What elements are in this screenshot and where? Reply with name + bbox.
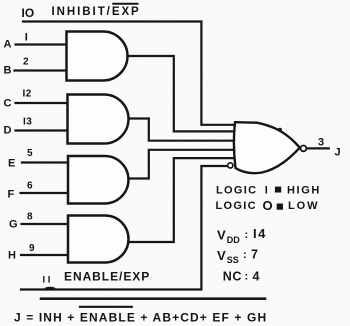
wire AND4 output to NOR input	[129, 158, 234, 242]
nor-gate U5 body	[234, 122, 300, 173]
wire input G	[22, 223, 69, 225]
and-gate U4 (inputs G,H)	[68, 216, 129, 263]
svg-text:ENABLE/EXP: ENABLE/EXP	[64, 270, 150, 284]
svg-text:J = INH + ENABLE + AB+CD+ EF +: J = INH + ENABLE + AB+CD+ EF + GH	[14, 311, 267, 325]
and-gate U1 (inputs A,B)	[67, 32, 128, 81]
svg-text:LOGIC: LOGIC	[216, 185, 257, 197]
svg-text:LOGIC: LOGIC	[216, 200, 257, 212]
svg-text:I: I	[265, 185, 268, 197]
wire input A	[16, 43, 69, 45]
svg-text:6: 6	[27, 181, 33, 192]
wire overline of EXP (top label)	[113, 3, 137, 5]
wire INHIBIT pin 10 net	[23, 22, 234, 125]
wire AND2 output to NOR input	[129, 119, 234, 141]
svg-text:SS: SS	[227, 255, 239, 265]
svg-text:HIGH: HIGH	[287, 185, 321, 197]
svg-text:5: 5	[27, 148, 33, 159]
wire input D	[16, 129, 69, 131]
svg-text::: :	[243, 249, 247, 261]
svg-text:I4: I4	[253, 226, 267, 241]
svg-text:O: O	[263, 198, 273, 213]
svg-text:LOW: LOW	[288, 200, 319, 212]
svg-text:IO: IO	[22, 6, 35, 20]
wire input E	[22, 161, 68, 163]
wire input B	[15, 69, 69, 71]
svg-text:3: 3	[318, 137, 324, 149]
svg-text:INHIBIT/EXP: INHIBIT/EXP	[52, 6, 141, 18]
svg-text:II: II	[43, 275, 53, 286]
wire input H	[21, 254, 68, 256]
nor-gate inverted input bubble (ENABLE)	[228, 163, 233, 168]
svg-text:A: A	[4, 39, 12, 51]
svg-text:NC: NC	[223, 270, 242, 284]
wire input C	[16, 102, 69, 104]
svg-text::: :	[245, 271, 249, 283]
svg-text:2: 2	[23, 57, 29, 68]
svg-text:V: V	[217, 248, 226, 263]
node: print dot on nor-gate top edge	[278, 128, 282, 132]
svg-text:I3: I3	[23, 117, 32, 128]
and-gate U3 (inputs E,F)	[68, 156, 128, 204]
svg-text:7: 7	[251, 248, 258, 262]
svg-text:4: 4	[253, 270, 260, 284]
wire input F	[21, 192, 69, 194]
svg-text:8: 8	[27, 212, 33, 223]
svg-text:I2: I2	[23, 89, 32, 100]
svg-text:I: I	[25, 32, 28, 44]
wire overline over ENABLE in equation	[80, 306, 132, 308]
and-gate U2 (inputs C,D)	[68, 95, 129, 144]
svg-text:B: B	[4, 65, 12, 77]
svg-text:D: D	[4, 125, 12, 137]
svg-text:V: V	[217, 228, 226, 243]
svg-text::: :	[245, 229, 249, 241]
wire AND1 output to NOR input	[128, 56, 234, 131]
svg-text:F: F	[8, 189, 15, 201]
nor-gate output bubble	[301, 146, 307, 152]
wire output J pin 3	[307, 147, 329, 149]
wire AND3 output to NOR input	[129, 150, 234, 179]
node: blob on ENABLE wire	[45, 287, 56, 291]
wire overall overline of equation	[41, 297, 265, 300]
svg-text:H: H	[8, 250, 16, 262]
svg-text:DD: DD	[227, 235, 240, 245]
svg-text:E: E	[8, 158, 15, 170]
svg-text:J: J	[335, 147, 341, 159]
svg-text:G: G	[9, 219, 18, 231]
svg-text:9: 9	[29, 243, 35, 254]
wire ENABLE pin 11 net	[21, 166, 227, 290]
svg-text:C: C	[4, 98, 12, 110]
